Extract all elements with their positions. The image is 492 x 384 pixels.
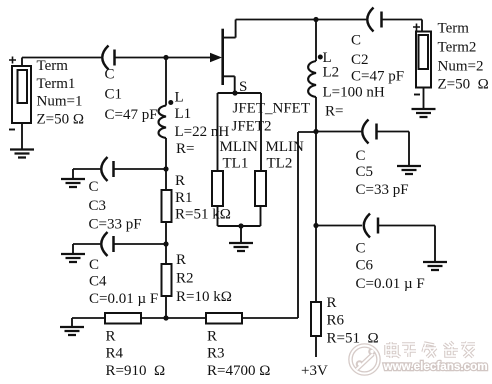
node TL ground junction: [238, 223, 243, 228]
svg-text:R=: R=: [325, 104, 343, 120]
node gate junction: [163, 55, 168, 60]
node L2 bottom junction: [313, 129, 318, 134]
svg-text:Z=50 Ω: Z=50 Ω: [438, 77, 489, 93]
resistor R1: [162, 190, 172, 222]
svg-text:Term: Term: [438, 21, 470, 37]
port Term1: [9, 57, 31, 130]
transmission line TL1: [212, 171, 223, 206]
svg-text:C1: C1: [105, 87, 123, 103]
R4 labels: [106, 329, 166, 380]
ground under TL stubs: [229, 243, 253, 251]
resistor R4: [105, 313, 141, 324]
wire top-left rail from Term1 to C1: [22, 57, 101, 59]
svg-text:R: R: [175, 173, 185, 189]
C6 labels: [356, 241, 425, 293]
ground at C3: [61, 179, 85, 187]
svg-text:Num=1: Num=1: [37, 94, 83, 110]
svg-text:R1: R1: [175, 190, 193, 206]
wire C6 row: [316, 226, 435, 263]
svg-text:C: C: [356, 148, 366, 164]
ground at C5: [397, 166, 421, 174]
wire bottom rail: [72, 318, 298, 327]
watermark chinese text: [386, 342, 475, 358]
svg-text:C: C: [356, 241, 366, 257]
svg-text:R=910 Ω: R=910 Ω: [106, 363, 166, 379]
wire gate node vertical x=166: [165, 58, 167, 319]
svg-text:R=10 kΩ: R=10 kΩ: [176, 289, 232, 305]
subcircuit box JFET2: [218, 93, 262, 243]
svg-text:Num=2: Num=2: [438, 59, 484, 75]
svg-text:C: C: [105, 67, 115, 83]
capacitor C6: [364, 214, 378, 238]
resistor R2: [162, 264, 172, 296]
svg-text:C5: C5: [356, 164, 374, 180]
svg-text:+3V: +3V: [301, 363, 328, 379]
inductor L1: [159, 106, 167, 139]
L1 labels: [175, 90, 230, 158]
svg-text:R6: R6: [327, 313, 345, 329]
svg-text:R2: R2: [176, 271, 194, 287]
ground at C4: [61, 254, 85, 262]
svg-text:R=51 Ω: R=51 Ω: [327, 331, 379, 347]
Term2 labels: [438, 21, 489, 93]
svg-text:C=0.01 µ F: C=0.01 µ F: [356, 276, 425, 292]
ground bottom-left rail: [60, 327, 84, 335]
svg-text:Term2: Term2: [438, 40, 477, 56]
svg-text:R: R: [327, 295, 337, 311]
node C3 junction: [163, 166, 168, 171]
R6 labels: [327, 295, 379, 347]
R3 labels: [207, 329, 270, 380]
svg-text:R4: R4: [106, 346, 124, 362]
node bottom rail junction: [163, 315, 168, 320]
svg-text:MLIN: MLIN: [220, 139, 258, 155]
svg-text:C=33 pF: C=33 pF: [356, 182, 409, 198]
svg-text:C3: C3: [89, 198, 107, 214]
svg-text:L2: L2: [323, 65, 340, 81]
wire drain node vertical x=316: [315, 20, 317, 358]
C1 labels: [105, 67, 158, 124]
node top rail junction: [313, 17, 318, 22]
resistor R3: [206, 313, 242, 324]
transistor Q1 JFET: [210, 20, 236, 94]
C4 labels: [89, 257, 158, 307]
R1 labels: [175, 173, 231, 223]
svg-text:L1: L1: [175, 106, 192, 122]
transmission line TL2: [255, 171, 266, 206]
wire Term2 stub: [423, 88, 425, 110]
svg-text:MLIN: MLIN: [266, 139, 304, 155]
inductor L2: [308, 61, 316, 97]
svg-text:R: R: [106, 329, 116, 345]
main ink: [22, 20, 435, 358]
svg-text:C6: C6: [356, 258, 374, 274]
inductor L2 pin dot: [318, 55, 323, 60]
svg-text:R=51 kΩ: R=51 kΩ: [175, 207, 231, 223]
svg-text:L=22 nH: L=22 nH: [175, 124, 230, 140]
wire top rail drain to C2 to Term2: [236, 20, 422, 32]
capacitor C3: [101, 157, 113, 181]
port Term2: [413, 24, 431, 95]
node S junction: [232, 90, 237, 95]
svg-text:R=4700 Ω: R=4700 Ω: [207, 363, 270, 379]
Term1 labels: [37, 58, 85, 128]
node C6 junction: [313, 223, 318, 228]
C2 labels: [351, 33, 404, 85]
svg-text:www.elecfans.com: www.elecfans.com: [383, 360, 488, 373]
ground at C6: [423, 262, 447, 270]
svg-text:R=: R=: [176, 141, 194, 157]
svg-text:JFET2: JFET2: [232, 119, 272, 135]
wire feedback vertical x=298: [298, 132, 316, 318]
svg-text:JFET_NFET: JFET_NFET: [233, 101, 311, 117]
svg-text:C2: C2: [351, 52, 369, 68]
svg-text:C=47 pF: C=47 pF: [351, 69, 404, 85]
ground under Term1: [10, 150, 34, 158]
wire C3 row: [73, 169, 166, 179]
inductor L1 pin dot: [168, 100, 173, 105]
subcircuit labels: [220, 101, 311, 172]
svg-text:L=100 nH: L=100 nH: [323, 85, 385, 101]
svg-text:Term: Term: [37, 58, 69, 74]
svg-text:TL1: TL1: [223, 156, 249, 172]
svg-text:Z=50 Ω: Z=50 Ω: [37, 112, 85, 128]
svg-text:C: C: [351, 33, 361, 49]
svg-text:C=33 pF: C=33 pF: [89, 217, 142, 233]
capacitor C1: [102, 46, 114, 70]
wire C4 row: [73, 244, 166, 254]
svg-text:C=47 pF: C=47 pF: [105, 107, 158, 123]
svg-text:R: R: [176, 252, 186, 268]
watermark www.elecfans.com: [383, 360, 488, 373]
svg-text:Term1: Term1: [37, 76, 76, 92]
svg-text:C4: C4: [89, 274, 107, 290]
wire C5 row: [316, 132, 409, 167]
ground under Term2: [412, 109, 436, 117]
svg-text:C: C: [89, 257, 99, 273]
C3 labels: [89, 179, 142, 233]
svg-text:TL2: TL2: [267, 156, 293, 172]
L2 labels: [323, 50, 385, 120]
svg-text:R: R: [207, 329, 217, 345]
resistor R6: [311, 302, 321, 336]
svg-text:C=0.01 µ F: C=0.01 µ F: [89, 291, 158, 307]
svg-text:L: L: [175, 90, 184, 106]
capacitor C4: [101, 232, 113, 256]
capacitor C5: [362, 120, 376, 144]
wire Term1 stubs: [21, 58, 23, 150]
C5 labels: [356, 148, 409, 198]
watermark logo elecfans: [351, 346, 379, 374]
capacitor C2: [367, 8, 381, 32]
wire C1 to gate node to JFET gate: [115, 57, 212, 59]
node C4 junction: [163, 241, 168, 246]
svg-text:C: C: [89, 179, 99, 195]
R2 labels: [176, 252, 232, 305]
svg-text:R3: R3: [207, 346, 225, 362]
